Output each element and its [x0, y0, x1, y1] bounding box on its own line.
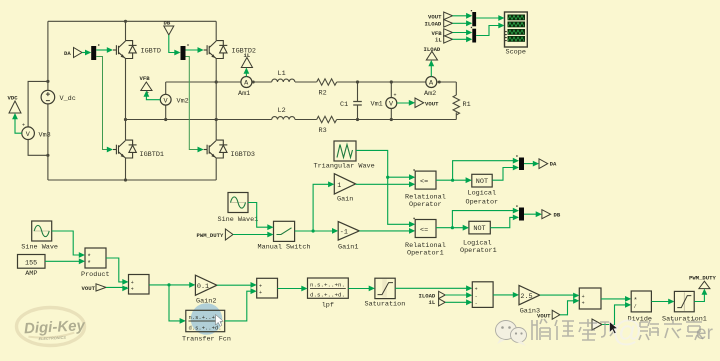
wire IGBTD1 collector lead [125, 120, 127, 141]
transistor IGBTD [113, 41, 161, 59]
svg-text:Operator: Operator [466, 198, 499, 206]
svg-text:R1: R1 [463, 101, 471, 109]
scope Scope [505, 12, 528, 57]
svg-text:Gain1: Gain1 [338, 244, 358, 252]
wire NOT1 out [490, 215, 519, 228]
wire Sum4 to Divide [601, 296, 631, 302]
svg-text:d.s.+..+d.: d.s.+..+d. [189, 325, 222, 331]
cursor (black pointer) [610, 322, 618, 334]
svg-text:Manual Switch: Manual Switch [258, 244, 311, 252]
svg-text:+: + [259, 283, 262, 289]
wire Triangular Wave to relational ops [356, 150, 415, 227]
block Divide [628, 291, 652, 323]
highlight circle (blue) [191, 303, 223, 335]
ammeter Am1 [238, 77, 252, 99]
gain Gain1 [338, 222, 359, 252]
wire Am1 to iL [244, 68, 250, 77]
wire VOUT to Sum4 [560, 298, 579, 315]
node DA from-tag [64, 48, 82, 58]
svg-text:Triangular Wave: Triangular Wave [314, 163, 375, 171]
wire switch out to Gain1 and Gain [295, 181, 339, 233]
demux DB [181, 44, 189, 60]
wire demux to IGBTD2 gate [186, 47, 204, 53]
svg-text:C1: C1 [340, 101, 348, 109]
svg-text:+: + [394, 93, 397, 99]
svg-text:@: @ [612, 315, 642, 348]
voltmeter Vm3 [22, 123, 51, 140]
comparator Relational Operator [405, 169, 446, 209]
svg-text:AMP: AMP [25, 270, 37, 278]
svg-text:NOT: NOT [476, 178, 488, 186]
wire top rail [48, 20, 216, 22]
transistor IGBTD2 [204, 41, 256, 59]
source V_dc [41, 90, 76, 104]
svg-text:DA: DA [550, 161, 557, 168]
node PWM_DUTY from-tag [197, 229, 234, 240]
svg-text:iL: iL [244, 52, 251, 59]
svg-text:-: - [475, 294, 478, 300]
comparator Relational Operator1 [405, 218, 446, 258]
svg-text:Gain: Gain [337, 196, 353, 204]
wire DA to demux [82, 50, 91, 56]
node VOUT from-tag (scope) [428, 12, 453, 20]
mux DB mux [516, 205, 524, 220]
svg-text:+: + [22, 123, 25, 129]
svg-text:Am1: Am1 [238, 90, 250, 98]
svg-text:IGBTD: IGBTD [141, 48, 161, 56]
wire Saturation1 to PWM_DUTY [694, 289, 707, 302]
svg-text:+: + [582, 294, 585, 300]
wire Sum1 out (to Gain2 and Transfer Fcn) [149, 282, 195, 324]
node ILOAD goto-tag [424, 46, 441, 60]
svg-text:Vm3: Vm3 [39, 131, 51, 139]
logic NOT Logical Operator [466, 174, 499, 206]
svg-text:+: + [582, 300, 585, 306]
wire Vm2 to VFB [144, 91, 161, 100]
wire Transfer Fcn to Sum2 [225, 288, 257, 321]
node DB from-tag [164, 20, 174, 36]
capacitor C1 [353, 82, 391, 120]
wire Vm1 to VOUT [397, 100, 415, 106]
svg-text:Logical: Logical [468, 190, 497, 198]
wire IGBTD3 emitter lead [215, 158, 217, 180]
svg-text:Am2: Am2 [424, 90, 436, 98]
gain Gain3 [519, 285, 540, 315]
wire Relational Operator1 out [436, 208, 519, 231]
svg-text:+: + [259, 290, 262, 296]
logic NOT Logical Operator1 [460, 221, 497, 255]
voltmeter Vm2 [146, 90, 189, 105]
svg-text:Operator: Operator [409, 201, 442, 209]
wire PWM_DUTY to switch [233, 232, 274, 238]
svg-text:n.s.+..+n.: n.s.+..+n. [310, 282, 345, 288]
cursor (white pointer) [216, 315, 224, 327]
wire VDC to Divide [602, 302, 631, 325]
svg-text:Vm1: Vm1 [371, 101, 383, 109]
svg-text:R2: R2 [319, 90, 327, 98]
wire Gain to Relational Operator [356, 181, 416, 187]
constant AMP 155 [18, 255, 46, 279]
wire AMP to Product [45, 258, 85, 264]
node VDC goto-tag [8, 95, 22, 114]
svg-text:Scope: Scope [506, 49, 526, 57]
wire left rail upper [47, 21, 49, 90]
svg-text:PWM_DUTY: PWM_DUTY [689, 275, 716, 282]
wire bottom rail [48, 179, 216, 181]
block Transfer Fcn [182, 310, 231, 343]
svg-text:+: + [131, 280, 134, 286]
svg-text:VDC: VDC [8, 95, 19, 102]
mux Mux2 [471, 27, 476, 43]
node DB goto-tag [542, 210, 561, 219]
wire demux to IGBTD1 gate [96, 57, 113, 153]
node VOUT goto-tag [415, 98, 439, 108]
svg-text:+: + [475, 287, 478, 293]
wire Saturation to Sum3 [395, 285, 472, 291]
gain Gain2 [195, 275, 217, 305]
svg-text:DB: DB [164, 20, 171, 27]
wire ILOAD to Mux1 [453, 20, 473, 26]
wire VOUT to Mux1 [453, 13, 473, 19]
wire Vm2 top link [166, 82, 241, 120]
source Triangular Wave [314, 141, 375, 171]
svg-text:VFB: VFB [140, 75, 151, 82]
source Sine Wave [21, 221, 58, 252]
transistor IGBTD3 [204, 140, 255, 159]
svg-text:Saturation: Saturation [365, 301, 406, 309]
wire DB to demux [169, 35, 181, 55]
svg-text:Relational: Relational [405, 193, 446, 201]
svg-text:0.1: 0.1 [197, 283, 209, 291]
wire right leg mid [215, 59, 217, 141]
wire VFB to Mux2 [453, 30, 473, 36]
svg-text:VOUT: VOUT [82, 285, 96, 292]
svg-text:155: 155 [25, 259, 37, 267]
wire mid rail [126, 119, 272, 121]
svg-text:/: / [634, 304, 637, 310]
inductor L1 [272, 79, 295, 82]
wire mux to DB [524, 211, 542, 217]
wire lpf to Saturation [348, 286, 375, 292]
svg-text:L2: L2 [278, 107, 286, 115]
node VOUT from-tag (sum1) [82, 284, 107, 292]
svg-text:2.5: 2.5 [520, 293, 532, 301]
watermark Chinese text right [639, 319, 703, 340]
block Product [81, 248, 110, 279]
wire Gain1 to Relational Operator1 [359, 228, 415, 234]
svg-text:<=: <= [420, 226, 428, 234]
node ILOAD from-tag (sum3) [419, 291, 446, 299]
sum Sum1 [129, 275, 150, 295]
wire IGBTD collector lead [125, 21, 127, 40]
svg-text:VOUT: VOUT [428, 13, 442, 20]
wire demux to IGBTD gate [96, 47, 113, 53]
svg-text:lpf: lpf [322, 301, 334, 309]
svg-text:Product: Product [81, 271, 110, 279]
block Saturation1 [662, 291, 707, 323]
wire left rail lower [47, 104, 49, 180]
wire Sum3 to Gain3 [493, 292, 519, 298]
wire VOUT to Sum1 [106, 285, 129, 291]
wire Sine Wave1 to switch [248, 203, 274, 231]
svg-text:VOUT: VOUT [537, 313, 551, 320]
svg-text:L1: L1 [278, 70, 286, 78]
svg-text:-1: -1 [340, 229, 348, 237]
watermark WeChat icon [496, 321, 527, 347]
wire Vm3 to VDC [12, 113, 22, 133]
svg-text:*: * [87, 261, 91, 269]
voltmeter Vm1 [371, 93, 397, 109]
svg-text:Transfer Fcn: Transfer Fcn [182, 335, 231, 343]
gain Gain [334, 174, 355, 204]
svg-text:<=: <= [420, 178, 428, 186]
node PWM_DUTY goto-tag [689, 275, 716, 289]
node VFB from-tag (scope) [432, 29, 453, 37]
wire ILOAD to Sum3 [445, 292, 472, 298]
source Sine Wave1 [218, 193, 259, 225]
wire iL to Sum3 [445, 299, 472, 305]
node ILOAD from-tag (scope) [425, 20, 453, 28]
svg-text:Vm2: Vm2 [177, 97, 189, 105]
junction dots (power) [46, 20, 441, 182]
node iL goto-tag [241, 52, 252, 68]
switch Manual Switch [258, 221, 311, 251]
resistor R3 [317, 116, 337, 122]
node VFB goto-tag [140, 75, 153, 91]
wire Gain2 to Sum2 [217, 282, 257, 288]
svg-text:R3: R3 [319, 127, 327, 135]
wire IGBTD1 emitter lead [125, 158, 127, 180]
wire IGBTD emitter lead [125, 59, 127, 120]
svg-text:Operator1: Operator1 [460, 247, 497, 255]
wire NOT out [492, 165, 519, 181]
watermark Chinese text [532, 319, 614, 340]
wire Am2 to ILOAD [428, 60, 434, 77]
wire IGBTD2 collector lead [215, 21, 217, 40]
svg-text:V_dc: V_dc [60, 95, 76, 103]
resistor R2 [317, 79, 337, 85]
ammeter Am2 [424, 77, 437, 99]
sum Sum3 [472, 282, 493, 308]
mux DA mux [516, 155, 524, 170]
svg-text:Sine Wave: Sine Wave [21, 244, 58, 252]
inductor L2 [272, 117, 295, 120]
wire load top [252, 81, 456, 83]
node VDC from-tag (divide) [592, 319, 602, 330]
svg-text:ELECTRONICS: ELECTRONICS [39, 336, 67, 341]
svg-text:DA: DA [64, 50, 71, 57]
svg-text:DB: DB [554, 211, 561, 218]
svg-text:ILOAD: ILOAD [424, 46, 441, 53]
wire Divide to Saturation1 [651, 299, 674, 305]
block lpf [308, 278, 349, 309]
svg-text:d.s.+..+d.: d.s.+..+d. [310, 293, 345, 299]
node iL from-tag (scope) [435, 36, 453, 44]
svg-text:er: er [696, 323, 714, 344]
sum Sum2 [257, 278, 278, 298]
svg-text:-: - [475, 301, 478, 307]
node iL from-tag (sum3) [429, 299, 446, 307]
node VOUT from-tag (sum4) [537, 310, 560, 319]
transistor IGBTD1 [113, 140, 164, 159]
svg-text:Sine Wave1: Sine Wave1 [218, 216, 259, 224]
wire mux to DA [524, 161, 539, 167]
svg-text:Operator1: Operator1 [407, 250, 444, 258]
wire demux to IGBTD3 gate [186, 57, 204, 153]
node DA goto-tag [539, 159, 557, 169]
svg-text:1: 1 [337, 182, 341, 190]
wire iL to Mux2 [453, 36, 473, 42]
svg-text:Digi-Key: Digi-Key [24, 317, 86, 337]
wire Product to Sum1 [106, 258, 129, 285]
block Saturation [365, 278, 406, 308]
svg-text:ILOAD: ILOAD [425, 20, 442, 27]
demux DA [91, 44, 99, 60]
wire Mux1 to Scope [476, 15, 504, 21]
mux Mux1 [471, 10, 476, 26]
svg-text:IGBTD3: IGBTD3 [231, 151, 255, 159]
wire Gain3 to Sum4 [540, 293, 580, 299]
svg-text:Relational: Relational [405, 242, 446, 250]
svg-text:PWM_DUTY: PWM_DUTY [197, 232, 224, 239]
wire Sine Wave to Product [52, 231, 85, 258]
wire Relational Operator out [436, 158, 519, 183]
svg-text:IGBTD1: IGBTD1 [140, 151, 164, 159]
resistor R1 [453, 82, 459, 120]
watermark Digi-Key logo [17, 308, 87, 346]
wire Mux2 to Scope [476, 23, 504, 36]
svg-text:VOUT: VOUT [425, 100, 439, 107]
svg-text:NOT: NOT [473, 225, 485, 233]
wire Vm3 loop [28, 81, 48, 155]
wire Sum2 to lpf [278, 286, 308, 292]
svg-text:iL: iL [429, 299, 436, 306]
svg-text:iL: iL [435, 36, 442, 43]
wire load bottom [295, 119, 456, 121]
sum Sum4 [579, 288, 601, 309]
svg-text:+: + [131, 287, 134, 293]
